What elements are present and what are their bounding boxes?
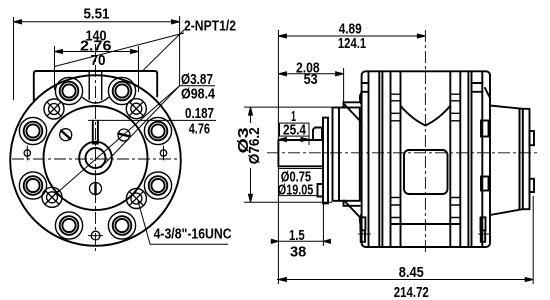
shaft inner circle: [86, 148, 106, 168]
side hole left: [24, 146, 30, 160]
svg-text:2-NPT1/2: 2-NPT1/2: [184, 19, 236, 35]
rear stub upper: [530, 131, 535, 145]
svg-text:124.1: 124.1: [338, 36, 366, 52]
assembly bolt B7: [60, 216, 79, 235]
mounting hole H4: [130, 192, 143, 205]
assembly bolt B3: [24, 122, 43, 141]
dimension 5.51 / 140: [14, 16, 180, 100]
svg-text:1.5: 1.5: [289, 228, 305, 244]
svg-text:4.76: 4.76: [189, 122, 210, 138]
slotted screw S1: [60, 129, 72, 141]
svg-text:53: 53: [304, 72, 318, 88]
mounting hole ears: [42, 99, 146, 209]
slotted screw S2: [118, 129, 130, 141]
mounting hole H2: [130, 102, 143, 115]
svg-text:Ø19.05: Ø19.05: [278, 182, 314, 198]
assembly bolt B6: [149, 176, 168, 195]
inner cavity: [404, 150, 448, 194]
svg-text:4-3/8"-16UNC: 4-3/8"-16UNC: [154, 227, 232, 243]
dimension 8.45 / 214.72: [277, 196, 534, 284]
front view top port boss: [34, 71, 157, 101]
housing verticals left strip: [369, 71, 401, 247]
dimension 1.5 / 38: [271, 204, 331, 246]
rear cover bolt upper: [481, 121, 489, 137]
top scallop dip arc: [83, 98, 109, 104]
assembly bolt B8: [113, 216, 132, 235]
strip ties right: [450, 94, 460, 217]
flange top step: [344, 102, 360, 107]
front view outer housing: [10, 75, 181, 246]
dimension 1 / 25.4 boxed: [278, 123, 309, 145]
left bolt head bottom: [360, 217, 365, 242]
left casting bulge top: [360, 92, 362, 105]
svg-text:Ø76.2: Ø76.2: [247, 127, 263, 164]
rear cover face: [523, 109, 530, 209]
callout Ø3.87 / Ø98.4 with leader: [52, 86, 215, 198]
side view centerlines: [267, 30, 540, 252]
rear boss bottom edge: [490, 209, 523, 215]
mounting flange pilot: [333, 108, 360, 201]
output shaft: [278, 140, 323, 166]
snap ring groove: [318, 184, 323, 197]
left bolt head top: [362, 83, 369, 92]
flange face line: [338, 108, 340, 201]
right bolt head bottom: [481, 217, 486, 242]
svg-text:Ø98.4: Ø98.4: [181, 87, 215, 103]
dimension 2.76 / 70: [55, 46, 139, 92]
port label 2-NPT1/2 with leaders: [55, 30, 185, 72]
svg-text:38: 38: [290, 244, 306, 260]
label 4-3/8"-16UNC with leader: [138, 201, 228, 244]
callout 0.187 / 4.76 keyway leader: [88, 119, 216, 121]
front view centerlines: [12, 44, 180, 253]
housing verticals right strip: [450, 71, 482, 247]
rear stub lower: [530, 179, 535, 192]
rear cover bolt lower: [481, 177, 489, 191]
rear cover joint: [520, 109, 523, 210]
assembly bolt B4: [149, 122, 168, 141]
main housing body: [362, 71, 490, 247]
retainer plate: [323, 118, 328, 204]
bottom joint line: [391, 223, 460, 225]
rear chamfer mark: [485, 88, 490, 98]
svg-text:8.45: 8.45: [399, 265, 424, 281]
left casting bulge bottom: [360, 214, 362, 227]
dimension 4.89 / 124.1: [278, 34, 425, 38]
slotted screw S3: [90, 183, 102, 195]
keyway slot: [93, 121, 98, 144]
dimension Ø3 / Ø76.2 vertical: [244, 107, 332, 202]
flange bottom step: [344, 201, 360, 206]
bottom center hole: [89, 231, 103, 240]
right bolt head top: [472, 83, 483, 92]
mounting hole H1 3/8-16UNC: [47, 102, 60, 115]
V chevron joint: [401, 106, 451, 126]
svg-text:25.4: 25.4: [283, 122, 306, 138]
flange-body bottom slant: [344, 201, 362, 220]
svg-text:5.51: 5.51: [84, 7, 110, 23]
assembly bolt B2: [113, 82, 132, 101]
flange-body top slant: [345, 105, 362, 123]
svg-text:214.72: 214.72: [394, 285, 429, 300]
dimension 2.08 / 53: [278, 68, 343, 103]
datum extension line: [277, 30, 279, 284]
pilot circle: [44, 106, 148, 210]
side hole right: [160, 146, 166, 160]
callout Ø0.75 / Ø19.05: [278, 169, 324, 196]
shaft outer circle: [79, 142, 112, 175]
assembly bolt B5: [24, 176, 43, 195]
bolt boss scallop ring: [19, 77, 171, 239]
port divider notch: [89, 71, 102, 100]
assembly bolt B1: [60, 82, 79, 101]
mounting hole H3: [45, 191, 58, 204]
strip ties left: [391, 94, 401, 217]
svg-text:0.187: 0.187: [185, 106, 214, 122]
rear boss top edge: [490, 106, 523, 109]
shaft key: [313, 128, 322, 141]
